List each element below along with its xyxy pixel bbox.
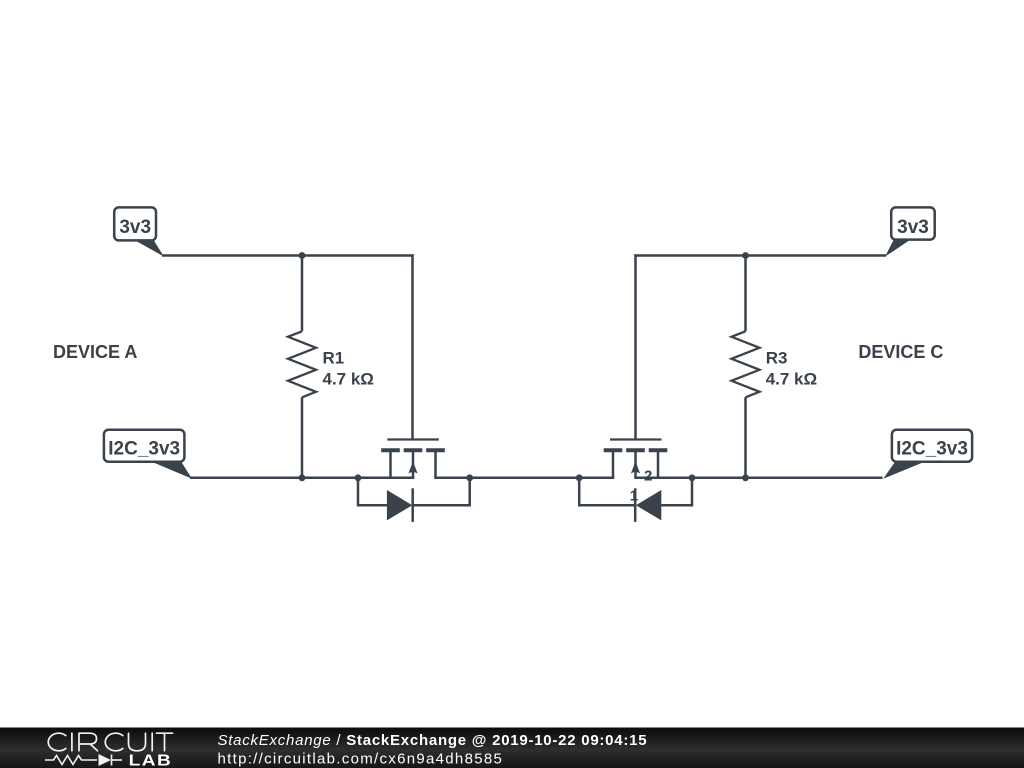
M1 gate bar bbox=[387, 438, 439, 440]
M2 drain stub bbox=[612, 451, 615, 478]
node 3v3C/R3 junction bbox=[742, 252, 749, 259]
svg-text:3v3: 3v3 bbox=[119, 217, 151, 238]
svg-text:R3: R3 bbox=[766, 349, 788, 368]
net flag I2C_3v3 (left) bbox=[104, 430, 192, 479]
CircuitLab logo: CIRCUIT wordmark bbox=[48, 733, 172, 751]
wire 3v3 rail A bbox=[162, 254, 414, 257]
svg-text:4.7 kΩ: 4.7 kΩ bbox=[323, 370, 374, 389]
wire M2 gate riser bbox=[634, 254, 637, 439]
svg-text:1: 1 bbox=[630, 488, 638, 505]
M2 channel dashes bbox=[604, 448, 668, 452]
M2 source stub bbox=[657, 451, 660, 478]
body diode D2 of M2 bbox=[579, 477, 692, 522]
resistor R1 bbox=[288, 254, 316, 479]
node M2 drain junction bbox=[576, 474, 583, 481]
node R3/I2C junction bbox=[742, 474, 749, 481]
svg-text:LAB: LAB bbox=[129, 751, 173, 768]
M1 source stub bbox=[389, 451, 392, 478]
node M1 drain junction bbox=[466, 474, 473, 481]
net flag 3v3 (left) bbox=[114, 207, 164, 256]
transistor M1 (NMOS) bbox=[381, 254, 445, 477]
svg-text:I2C_3v3: I2C_3v3 bbox=[108, 438, 180, 459]
svg-text:3v3: 3v3 bbox=[897, 217, 929, 238]
wire I2C rail A bbox=[190, 477, 414, 480]
label R1 value bbox=[323, 349, 374, 389]
wire 3v3 rail C bbox=[634, 254, 886, 257]
M1 body stub + arrow bbox=[412, 451, 415, 478]
transistor M2 (NMOS, mirrored) bbox=[604, 254, 668, 477]
wire I2C rail C bbox=[634, 477, 882, 480]
node D1 anode junction bbox=[355, 474, 362, 481]
resistor R3 bbox=[732, 254, 760, 479]
svg-text:I2C_3v3: I2C_3v3 bbox=[896, 438, 968, 459]
svg-text:http://circuitlab.com/cx6n9a4d: http://circuitlab.com/cx6n9a4dh8585 bbox=[218, 751, 504, 768]
M1 drain stub bbox=[434, 451, 437, 478]
svg-text:4.7 kΩ: 4.7 kΩ bbox=[766, 370, 817, 389]
node R1/I2C junction bbox=[299, 474, 306, 481]
node 3v3A/R1 junction bbox=[299, 252, 306, 259]
svg-text:DEVICE C: DEVICE C bbox=[858, 342, 943, 362]
CircuitLab logo: resistor-diode glyph bbox=[45, 755, 122, 766]
svg-text:R1: R1 bbox=[323, 349, 345, 368]
node M2 source junction bbox=[689, 474, 696, 481]
svg-text:StackExchange / StackExchange: StackExchange / StackExchange @ 2019-10-… bbox=[218, 732, 648, 749]
wire M1 gate riser bbox=[411, 254, 414, 439]
wire I2C middle net bbox=[434, 477, 614, 480]
svg-text:DEVICE A: DEVICE A bbox=[53, 342, 137, 362]
M1 channel dashes bbox=[381, 448, 445, 452]
M2 body stub + arrow bbox=[634, 451, 637, 478]
body diode D1 of M1 bbox=[358, 477, 470, 522]
net flag I2C_3v3 (right) bbox=[883, 430, 972, 479]
footer bar bbox=[0, 728, 1024, 768]
label R3 value bbox=[766, 349, 817, 389]
net flag 3v3 (right) bbox=[885, 207, 935, 256]
M2 gate bar bbox=[610, 438, 662, 440]
svg-text:2: 2 bbox=[644, 468, 652, 485]
